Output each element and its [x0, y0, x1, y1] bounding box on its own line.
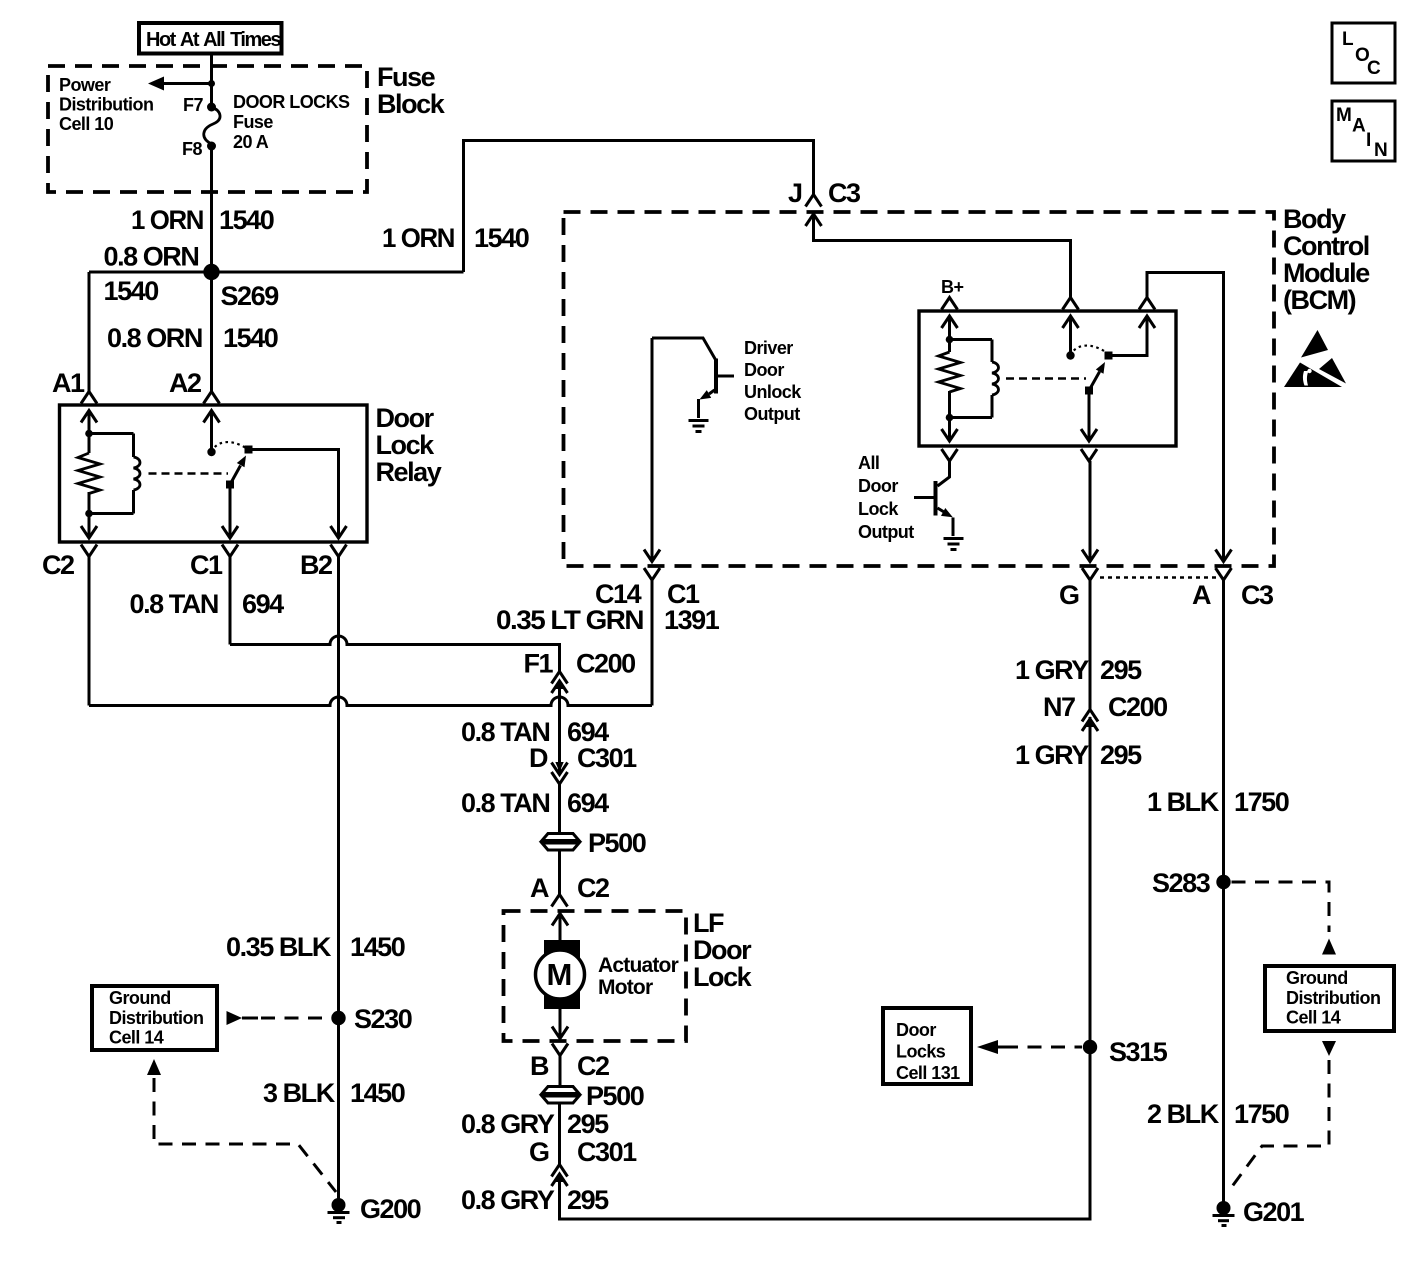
- svg-text:Ground: Ground: [1286, 968, 1348, 988]
- svg-text:Door: Door: [693, 935, 752, 965]
- svg-text:20 A: 20 A: [233, 132, 269, 152]
- svg-text:Distribution: Distribution: [109, 1008, 203, 1028]
- svg-text:Lock: Lock: [693, 962, 753, 992]
- svg-text:1 GRY: 1 GRY: [1015, 740, 1089, 770]
- svg-text:295: 295: [567, 1109, 609, 1139]
- svg-text:Distribution: Distribution: [1286, 988, 1380, 1008]
- svg-text:295: 295: [567, 1185, 609, 1215]
- svg-text:S269: S269: [221, 281, 280, 311]
- svg-text:0.8 ORN: 0.8 ORN: [104, 242, 199, 272]
- svg-text:Cell 14: Cell 14: [109, 1028, 164, 1048]
- svg-text:G201: G201: [1243, 1197, 1305, 1227]
- svg-text:Fuse: Fuse: [377, 62, 436, 92]
- svg-text:C301: C301: [577, 743, 637, 773]
- svg-text:1750: 1750: [1234, 787, 1289, 817]
- svg-text:Control: Control: [1283, 231, 1369, 261]
- svg-text:Relay: Relay: [376, 457, 442, 487]
- svg-text:Distribution: Distribution: [59, 95, 153, 115]
- svg-text:L: L: [1342, 29, 1354, 50]
- svg-text:1 BLK: 1 BLK: [1147, 787, 1220, 817]
- svg-text:Door: Door: [376, 403, 435, 433]
- svg-text:Actuator: Actuator: [598, 954, 679, 977]
- svg-text:DOOR LOCKS: DOOR LOCKS: [233, 92, 350, 112]
- svg-text:0.35 BLK: 0.35 BLK: [226, 932, 332, 962]
- svg-text:P500: P500: [588, 828, 646, 858]
- svg-text:N: N: [1374, 140, 1388, 161]
- svg-text:0.8 TAN: 0.8 TAN: [130, 589, 218, 619]
- svg-text:J: J: [788, 178, 802, 208]
- svg-text:Cell 10: Cell 10: [59, 114, 114, 134]
- svg-text:1 ORN: 1 ORN: [382, 223, 454, 253]
- svg-text:Cell 131: Cell 131: [896, 1063, 960, 1083]
- svg-text:Lock: Lock: [858, 499, 899, 519]
- svg-text:M: M: [547, 957, 573, 992]
- svg-text:Output: Output: [858, 522, 914, 542]
- svg-text:C1: C1: [190, 550, 223, 580]
- svg-text:1391: 1391: [664, 605, 720, 635]
- svg-text:Door: Door: [858, 476, 898, 496]
- svg-text:C301: C301: [577, 1137, 637, 1167]
- svg-text:B2: B2: [300, 550, 332, 580]
- svg-text:A: A: [1352, 116, 1366, 137]
- svg-text:P500: P500: [586, 1081, 644, 1111]
- svg-text:G200: G200: [360, 1194, 421, 1224]
- svg-text:2 BLK: 2 BLK: [1147, 1099, 1220, 1129]
- svg-text:S283: S283: [1152, 868, 1211, 898]
- svg-text:Body: Body: [1283, 204, 1346, 234]
- svg-text:S315: S315: [1109, 1037, 1168, 1067]
- svg-text:694: 694: [567, 788, 609, 818]
- svg-text:1540: 1540: [474, 223, 529, 253]
- svg-text:1450: 1450: [350, 1078, 405, 1108]
- svg-text:Locks: Locks: [896, 1042, 946, 1062]
- svg-text:G: G: [1059, 580, 1079, 610]
- svg-text:0.8 TAN: 0.8 TAN: [461, 788, 549, 818]
- svg-text:F7: F7: [183, 95, 203, 115]
- svg-text:A1: A1: [52, 368, 85, 398]
- svg-text:Door: Door: [744, 360, 784, 380]
- svg-text:Fuse: Fuse: [233, 112, 273, 132]
- svg-text:Block: Block: [377, 89, 446, 119]
- svg-text:295: 295: [1100, 740, 1142, 770]
- svg-text:Module: Module: [1283, 258, 1370, 288]
- svg-text:M: M: [1336, 105, 1352, 126]
- svg-text:694: 694: [242, 589, 284, 619]
- svg-text:Unlock: Unlock: [744, 382, 802, 402]
- svg-text:1450: 1450: [350, 932, 405, 962]
- svg-text:S230: S230: [354, 1004, 412, 1034]
- svg-text:Power: Power: [59, 75, 111, 95]
- svg-text:1 GRY: 1 GRY: [1015, 655, 1089, 685]
- svg-text:C2: C2: [577, 1051, 609, 1081]
- svg-text:All: All: [858, 453, 879, 473]
- svg-text:0.8 ORN: 0.8 ORN: [107, 323, 202, 353]
- svg-text:A: A: [530, 873, 549, 903]
- svg-text:G: G: [529, 1137, 549, 1167]
- svg-text:Driver: Driver: [744, 338, 793, 358]
- svg-text:1750: 1750: [1234, 1099, 1289, 1129]
- svg-text:Lock: Lock: [376, 430, 436, 460]
- svg-text:F1: F1: [524, 649, 554, 679]
- svg-text:(BCM): (BCM): [1283, 285, 1356, 315]
- svg-text:C2: C2: [577, 873, 609, 903]
- svg-text:C3: C3: [1241, 580, 1274, 610]
- svg-text:C3: C3: [828, 178, 861, 208]
- svg-text:0.8 GRY: 0.8 GRY: [461, 1185, 555, 1215]
- svg-text:B+: B+: [941, 277, 963, 297]
- svg-text:1540: 1540: [104, 276, 159, 306]
- svg-text:Ground: Ground: [109, 988, 171, 1008]
- svg-text:1 ORN: 1 ORN: [131, 205, 203, 235]
- svg-text:B: B: [530, 1051, 549, 1081]
- svg-text:C200: C200: [576, 649, 635, 679]
- svg-text:Motor: Motor: [598, 976, 653, 999]
- svg-text:0.8 GRY: 0.8 GRY: [461, 1109, 555, 1139]
- svg-text:C: C: [1367, 58, 1381, 79]
- svg-text:Cell 14: Cell 14: [1286, 1008, 1341, 1028]
- svg-text:C200: C200: [1108, 692, 1167, 722]
- svg-text:295: 295: [1100, 655, 1142, 685]
- svg-text:A: A: [1192, 580, 1211, 610]
- svg-text:Door: Door: [896, 1020, 936, 1040]
- svg-text:LF: LF: [693, 908, 724, 938]
- svg-text:D: D: [529, 743, 548, 773]
- svg-text:3 BLK: 3 BLK: [263, 1078, 336, 1108]
- svg-text:1540: 1540: [223, 323, 278, 353]
- svg-text:N7: N7: [1043, 692, 1075, 722]
- svg-text:F8: F8: [182, 139, 202, 159]
- svg-text:I: I: [1366, 130, 1371, 151]
- svg-text:1540: 1540: [219, 205, 274, 235]
- svg-text:C2: C2: [42, 550, 74, 580]
- svg-text:0.35 LT GRN: 0.35 LT GRN: [496, 605, 643, 635]
- svg-text:Hot At All Times: Hot At All Times: [146, 29, 281, 51]
- svg-text:Output: Output: [744, 404, 800, 424]
- svg-text:A2: A2: [169, 368, 201, 398]
